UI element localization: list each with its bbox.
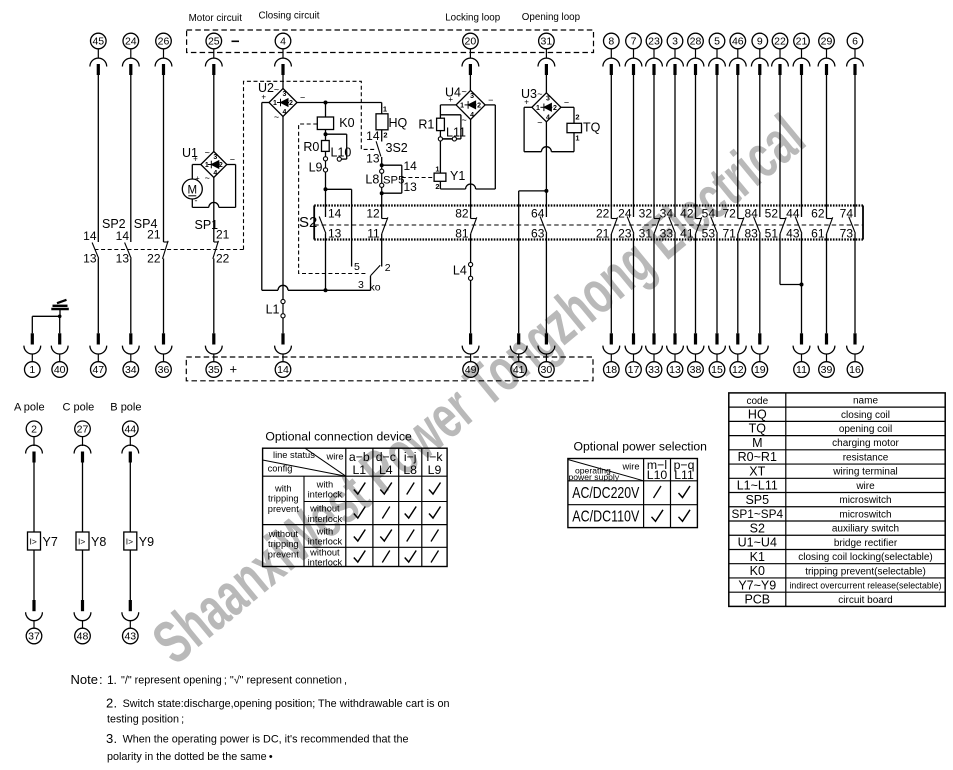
svg-text:d−c: d−c	[376, 450, 396, 464]
node junction L9/S2-14	[324, 187, 328, 191]
wire split to S2 contact 64	[545, 191, 547, 206]
svg-text:L1: L1	[352, 463, 366, 477]
wire S2 to terminal 17	[633, 240, 635, 334]
svg-text:2: 2	[477, 102, 481, 109]
svg-text:auxiliary switch: auxiliary switch	[832, 524, 899, 535]
wire Y1 bottom loop	[440, 105, 495, 189]
microswitch SP4 contact	[116, 217, 158, 265]
svg-text:23: 23	[648, 36, 660, 48]
svg-text:2: 2	[106, 696, 113, 711]
bottom bus wire	[262, 289, 371, 291]
svg-text:22: 22	[774, 36, 786, 48]
wire U2 pin4 down	[282, 117, 284, 300]
node junction opening split	[544, 189, 548, 193]
svg-text:interlock: interlock	[308, 514, 343, 524]
interlock contact 3S2	[366, 129, 408, 166]
svg-text:circuit board: circuit board	[838, 595, 892, 606]
svg-text:14: 14	[328, 206, 342, 220]
wire terminal 3 to S2	[674, 75, 676, 206]
svg-text:charging motor: charging motor	[832, 438, 899, 449]
wire R1 to L11	[439, 131, 441, 137]
svg-text:AC/DC110V: AC/DC110V	[572, 509, 640, 526]
terminal XT-16 (bottom)	[847, 333, 864, 377]
svg-text:Opening loop: Opening loop	[522, 12, 581, 23]
svg-text:2: 2	[435, 182, 439, 191]
wire terminal 22 to S2	[779, 75, 781, 206]
svg-text:B pole: B pole	[110, 402, 141, 414]
wire U3 pin4 down	[545, 122, 547, 191]
wire R0 to L10	[325, 151, 327, 156]
opening coil TQ	[567, 113, 601, 143]
wire terminal 9 to S2	[759, 75, 761, 206]
svg-text:33: 33	[660, 227, 674, 241]
svg-text:5: 5	[354, 261, 360, 273]
terminal XT-3 (top)	[667, 33, 684, 75]
svg-text:~: ~	[205, 148, 210, 158]
svg-text:63: 63	[531, 227, 545, 241]
relay K0 tripping prevent	[317, 116, 354, 130]
wire S2 contact 44 to terminal 11	[801, 240, 803, 334]
dashed link K0 to ko	[299, 124, 367, 274]
terminal XT-29 (top)	[818, 33, 835, 75]
wire terminal 4 to U2	[282, 75, 284, 89]
svg-text:L10: L10	[647, 468, 668, 482]
wire ko pivot to bottom bus	[370, 276, 372, 291]
svg-text:54: 54	[702, 206, 716, 220]
wire plug L9 contact	[309, 161, 328, 175]
svg-text:R0: R0	[303, 140, 319, 154]
terminal XT-40 (bottom)	[51, 333, 68, 377]
svg-text:29: 29	[821, 36, 833, 48]
optional power selection table	[568, 440, 707, 528]
svg-text:power supply: power supply	[569, 472, 620, 482]
bridge rectifier U4	[445, 85, 493, 125]
svg-text:HQ: HQ	[748, 407, 767, 421]
wire Y8 to bottom	[82, 550, 84, 600]
svg-text:3: 3	[106, 731, 113, 746]
wire S2 to terminal 39	[826, 240, 828, 334]
svg-text:.: .	[114, 673, 117, 687]
svg-text:HQ: HQ	[389, 116, 408, 130]
code name table	[729, 393, 945, 607]
svg-text:without: without	[309, 504, 340, 514]
node junction lines 52/44	[800, 283, 804, 287]
svg-text::: :	[99, 672, 103, 687]
svg-text:84: 84	[744, 206, 758, 220]
svg-text:without: without	[309, 547, 340, 557]
terminal XT-34 (bottom)	[122, 333, 139, 377]
minus polarity mark	[232, 40, 240, 42]
svg-text:L9: L9	[428, 463, 442, 477]
wire SP5 to S2 contact 12	[381, 193, 383, 205]
terminal XT-36 (bottom)	[155, 333, 172, 377]
S2 contact 14/13	[319, 206, 341, 241]
svg-text:2: 2	[385, 262, 391, 274]
svg-text:47: 47	[92, 364, 104, 376]
wire hop over closing line	[278, 285, 288, 290]
mechanical linkage dashed line SP switches	[95, 249, 244, 251]
charging motor M	[182, 174, 202, 206]
svg-text:20: 20	[465, 36, 477, 48]
svg-text:64: 64	[531, 206, 545, 220]
svg-text:microswitch: microswitch	[839, 495, 891, 506]
terminal XT-19 (bottom)	[751, 333, 768, 377]
wire K0 bypass to L10	[326, 134, 347, 159]
wire terminal 46 to S2	[737, 75, 739, 206]
wire S2-63 down to terminal 30	[545, 240, 547, 334]
svg-text:2: 2	[289, 100, 293, 107]
svg-text:40: 40	[54, 364, 66, 376]
S2 contact 82/81	[455, 206, 477, 241]
S2 contact 64/63	[531, 206, 547, 241]
terminal XT-21 (top)	[793, 33, 810, 75]
wire plug L8 contacts	[365, 169, 383, 187]
svg-text:21: 21	[596, 227, 610, 241]
svg-text:L9: L9	[309, 161, 323, 175]
S2 contact 62/61	[811, 206, 833, 241]
svg-text:Locking loop: Locking loop	[445, 13, 501, 24]
svg-text:config: config	[268, 464, 293, 474]
wire terminal 29 to S2	[826, 75, 828, 206]
wire L9 down to node	[325, 172, 327, 189]
svg-text:38: 38	[690, 364, 702, 376]
svg-text:4: 4	[283, 109, 287, 116]
svg-text:L1: L1	[266, 303, 280, 317]
svg-text:21: 21	[147, 228, 161, 242]
selectable contact ko	[354, 261, 391, 294]
svg-text:41: 41	[680, 227, 694, 241]
svg-text:22: 22	[216, 251, 230, 265]
wire S2 contact 52 jog to terminal 11	[780, 240, 802, 285]
svg-text:Optional power selection: Optional power selection	[574, 440, 707, 454]
terminal XT-46 (top)	[729, 33, 746, 75]
wire B pole to Y9	[129, 463, 131, 533]
svg-text:−: −	[300, 93, 305, 103]
wire SP2 to terminal 47	[97, 259, 99, 334]
S2 contact 22/21	[596, 206, 618, 241]
svg-text:1: 1	[273, 100, 277, 107]
wire terminal 45 to SP2	[97, 75, 99, 242]
svg-text:tripping: tripping	[268, 539, 299, 549]
svg-text:without: without	[268, 529, 299, 539]
wire hop over SP1 line	[209, 202, 219, 207]
watermark text	[141, 103, 818, 678]
wire terminal 6 to S2	[854, 75, 856, 206]
svg-text:22: 22	[596, 206, 610, 220]
svg-text:interlock: interlock	[308, 558, 343, 568]
wire S2 to terminal 12	[737, 240, 739, 334]
svg-text:"/" represent opening ; "√" re: "/" represent opening ; "√" represent co…	[121, 675, 347, 687]
svg-text:37: 37	[28, 631, 40, 643]
node junction SP5 bottom	[380, 191, 384, 195]
wire L4 to terminal 49	[470, 267, 472, 334]
svg-text:26: 26	[158, 36, 170, 48]
microswitch SP5 box	[382, 159, 417, 194]
node junction below K0	[324, 130, 328, 141]
svg-text:45: 45	[92, 36, 104, 48]
svg-text:53: 53	[702, 227, 716, 241]
closing coil HQ	[376, 105, 408, 140]
svg-text:4: 4	[213, 170, 217, 177]
svg-text:8: 8	[608, 36, 614, 48]
terminal XT-48 (C pole bottom)	[74, 600, 91, 644]
svg-text:34: 34	[125, 364, 137, 376]
wire terminal 28 to S2	[695, 75, 697, 206]
svg-text:3: 3	[546, 95, 550, 102]
svg-text:U2: U2	[258, 81, 274, 95]
svg-text:3: 3	[672, 36, 678, 48]
top section label Motor circuit	[189, 13, 243, 24]
svg-text:28: 28	[690, 36, 702, 48]
svg-text:43: 43	[786, 227, 800, 241]
svg-text:3: 3	[213, 154, 217, 161]
terminal XT-18 (bottom)	[603, 333, 620, 377]
svg-text:3: 3	[358, 279, 364, 291]
svg-text:1: 1	[536, 105, 540, 112]
terminal XT-22 (top)	[772, 33, 789, 75]
terminal XT-45 (top)	[90, 33, 107, 75]
svg-text:L1~L11: L1~L11	[737, 479, 778, 493]
wire U3 pin2 to TQ	[561, 107, 574, 123]
wire node to S2 contact 14	[325, 189, 327, 205]
svg-text:14: 14	[366, 129, 380, 143]
microswitch SP1 contact	[195, 218, 230, 265]
wire L1 to terminal 14	[282, 304, 284, 334]
svg-text:Optional connection device: Optional connection device	[265, 429, 412, 443]
svg-text:31: 31	[639, 227, 653, 241]
svg-text:TQ: TQ	[583, 121, 601, 135]
node junction ground	[58, 315, 62, 319]
svg-text:L8: L8	[365, 173, 379, 187]
svg-text:U1: U1	[182, 146, 198, 160]
svg-text:2: 2	[383, 130, 387, 139]
wire terminal 25 to U1	[213, 75, 215, 152]
terminal XT-15 (bottom)	[709, 333, 726, 377]
svg-text:1: 1	[435, 165, 439, 174]
svg-text:71: 71	[722, 227, 736, 241]
wire U1 pin1 to motor	[192, 165, 201, 180]
svg-text:2: 2	[31, 423, 37, 435]
svg-text:opening coil: opening coil	[839, 424, 892, 435]
svg-text:16: 16	[849, 364, 861, 376]
svg-text:52: 52	[765, 206, 779, 220]
terminal XT-23 (top)	[646, 33, 663, 75]
svg-text:48: 48	[77, 631, 89, 643]
svg-text:13: 13	[366, 152, 380, 166]
wire hop over locking line	[466, 184, 476, 189]
svg-text:35: 35	[208, 364, 220, 376]
wire bus to HQ	[381, 103, 383, 114]
svg-text:ko: ko	[370, 282, 381, 294]
svg-text:62: 62	[811, 206, 825, 220]
svg-text:Motor circuit: Motor circuit	[189, 13, 243, 24]
svg-text:wire: wire	[326, 452, 344, 462]
wire L11 to Y1	[439, 141, 441, 173]
svg-text:-: -	[195, 196, 198, 206]
wire SP1 to terminal 35	[213, 259, 215, 334]
wire Y7 to bottom	[33, 550, 35, 600]
svg-text:L11: L11	[674, 468, 694, 482]
wire terminal 8 to S2	[610, 75, 612, 206]
svg-text:24: 24	[618, 206, 632, 220]
svg-text:i−j: i−j	[404, 450, 417, 464]
svg-text:R0~R1: R0~R1	[738, 450, 777, 464]
svg-text:XT: XT	[749, 464, 765, 478]
svg-text:Y9: Y9	[139, 535, 154, 549]
svg-text:18: 18	[605, 364, 617, 376]
terminal XT-31 (top)	[538, 33, 555, 75]
wire 3S2 to SP5	[381, 157, 383, 165]
terminal XT-47 (bottom)	[90, 333, 107, 377]
svg-text:31: 31	[541, 36, 553, 48]
wire C pole to Y8	[82, 463, 84, 533]
terminal XT-35 (bottom)	[205, 333, 222, 377]
terminal XT-44 (B pole top)	[122, 421, 139, 463]
svg-text:wire: wire	[855, 481, 875, 492]
terminal XT-14 (bottom)	[275, 333, 292, 377]
svg-text:SP5: SP5	[383, 175, 404, 187]
svg-text:12: 12	[366, 206, 380, 220]
svg-text:M: M	[752, 436, 762, 450]
svg-text:U4: U4	[445, 85, 461, 99]
svg-text:22: 22	[147, 251, 161, 265]
S2 contact 42/41	[680, 206, 702, 241]
wire U2 pin2 east bus	[297, 102, 382, 104]
svg-text:with: with	[274, 484, 292, 494]
wire terminal 23 to S2	[653, 75, 655, 206]
svg-text:code: code	[746, 396, 768, 407]
terminal XT-37 (A pole bottom)	[26, 600, 43, 644]
svg-text:~: ~	[461, 115, 466, 125]
svg-text:closing coil locking(selectabl: closing coil locking(selectable)	[798, 552, 933, 563]
S2 contact 32/31	[639, 206, 661, 241]
wire ground to node	[59, 309, 61, 316]
S2 contact 74/73	[840, 206, 856, 241]
wire S2 to terminal 18	[610, 240, 612, 334]
top section label Closing circuit	[259, 11, 320, 22]
svg-text:15: 15	[711, 364, 723, 376]
svg-text:TQ: TQ	[749, 422, 767, 436]
B pole label	[110, 402, 141, 414]
svg-text:R1: R1	[418, 118, 434, 132]
svg-text:U1~U4: U1~U4	[738, 536, 777, 550]
wire S2 to terminal 16	[854, 240, 856, 334]
wire L8 segments	[381, 165, 383, 193]
svg-text:21: 21	[796, 36, 808, 48]
svg-text:14: 14	[116, 229, 130, 243]
svg-text:49: 49	[465, 364, 477, 376]
wire K0 top	[325, 103, 327, 118]
svg-text:19: 19	[754, 364, 766, 376]
svg-text:46: 46	[732, 36, 744, 48]
wire S2-11 to ko point 2	[381, 240, 383, 267]
svg-text:11: 11	[796, 364, 807, 376]
svg-text:Y7~Y9: Y7~Y9	[738, 578, 776, 592]
terminal XT-39 (bottom)	[818, 333, 835, 377]
svg-text:bridge rectifier: bridge rectifier	[834, 538, 898, 549]
bridge rectifier U2	[258, 81, 305, 122]
svg-text:~: ~	[461, 86, 466, 96]
wire terminal 5 to S2	[716, 75, 718, 206]
ground symbol	[51, 300, 69, 309]
svg-text:~: ~	[537, 117, 542, 127]
svg-text:1: 1	[29, 364, 35, 376]
svg-text:indirect overcurrent release(s: indirect overcurrent release(selectable)	[789, 581, 941, 591]
terminal XT-24 (top)	[122, 33, 139, 75]
svg-text:L4: L4	[453, 264, 467, 278]
svg-text:13: 13	[116, 251, 130, 265]
svg-text:4: 4	[470, 112, 474, 119]
wire node to ko point 5	[326, 189, 352, 266]
svg-text:7: 7	[631, 36, 637, 48]
terminal XT-26 (top)	[155, 33, 172, 75]
svg-text:wiring terminal: wiring terminal	[832, 467, 897, 478]
wire plug L1 contacts	[266, 299, 286, 318]
wire terminal 20 to U4	[469, 75, 471, 90]
svg-text:testing position ;: testing position ;	[107, 714, 184, 726]
svg-text:61: 61	[811, 227, 825, 241]
overcurrent release Y7	[28, 532, 58, 550]
svg-text:14: 14	[404, 159, 418, 173]
svg-text:12: 12	[732, 364, 744, 376]
wire NC contact to terminal 36	[163, 259, 165, 334]
svg-text:9: 9	[757, 36, 763, 48]
svg-text:11: 11	[367, 227, 380, 241]
terminal XT-6 (top)	[847, 33, 864, 75]
wire hop over opening line	[541, 147, 551, 152]
node junction 3S2/SP5 top	[380, 163, 384, 167]
auxiliary switch S2 box	[299, 206, 863, 240]
svg-text:+: +	[230, 362, 238, 377]
svg-text:−: −	[230, 155, 235, 165]
svg-text:~: ~	[537, 89, 542, 99]
resistor R0	[303, 140, 329, 154]
terminal XT-27 (C pole top)	[74, 421, 91, 463]
svg-text:~: ~	[274, 85, 279, 95]
svg-text:32: 32	[639, 206, 653, 220]
terminal XT-7 (top)	[625, 33, 642, 75]
svg-text:interlock: interlock	[308, 537, 343, 547]
svg-text:3: 3	[283, 91, 287, 98]
svg-text:33: 33	[648, 364, 660, 376]
wire U1 pin4 to SP1	[213, 178, 215, 243]
wire L11 link installed	[443, 138, 453, 140]
svg-text:tripping: tripping	[268, 494, 299, 504]
plus polarity mark	[230, 362, 238, 377]
svg-text:K0: K0	[339, 116, 354, 130]
svg-text:L11: L11	[446, 125, 466, 139]
overcurrent release Y8	[76, 532, 106, 550]
svg-text:3: 3	[470, 93, 474, 100]
svg-text:C pole: C pole	[63, 402, 95, 414]
bridge rectifier U1	[182, 146, 235, 183]
wire motor to U1 pin2 (bottom loop)	[192, 165, 235, 208]
terminal XT-41 (bottom)	[510, 333, 527, 377]
notes text	[71, 672, 450, 763]
node junction bus/S2-13	[324, 288, 328, 292]
svg-text:Y7: Y7	[43, 535, 58, 549]
svg-text:73: 73	[840, 227, 854, 241]
terminal XT-2 (A pole top)	[26, 421, 43, 463]
wire plug L4 contacts	[453, 262, 473, 280]
wire split to line 41	[519, 191, 547, 333]
top section label Locking loop	[445, 13, 501, 24]
resistor R1	[418, 118, 444, 132]
terminal XT-12 (bottom)	[729, 333, 746, 377]
terminal XT-28 (top)	[687, 33, 704, 75]
svg-text:resistance: resistance	[843, 452, 889, 463]
svg-text:1: 1	[383, 105, 387, 114]
